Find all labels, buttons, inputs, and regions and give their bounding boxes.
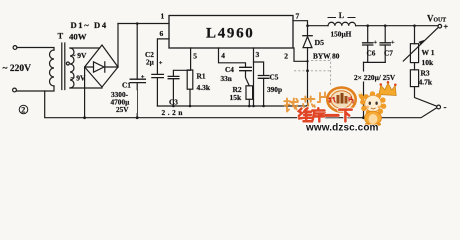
wire R2 bottom	[248, 99, 250, 106]
svg-text:4.7k: 4.7k	[419, 78, 433, 87]
capacitor C7	[380, 43, 390, 45]
wire C6 C7 join bar	[364, 61, 386, 63]
red brand text wei-ku-yi-xia drawn strokes	[299, 108, 352, 121]
junction pin2	[306, 60, 308, 62]
svg-text:4.3k: 4.3k	[197, 83, 211, 92]
svg-text:R1: R1	[197, 72, 206, 81]
svg-text:C5: C5	[270, 73, 279, 82]
svg-text:33n: 33n	[221, 74, 232, 83]
svg-text:2µ: 2µ	[146, 58, 155, 67]
diode D5	[303, 35, 312, 37]
AC source terminal top	[13, 46, 17, 50]
svg-text:10k: 10k	[422, 58, 435, 67]
svg-text:~ 9V: ~ 9V	[72, 51, 88, 60]
capacitor C4	[240, 67, 252, 70]
svg-text:R3: R3	[421, 69, 430, 78]
wire L to Vout	[356, 25, 438, 27]
wire W1 riser	[414, 26, 416, 44]
wire middle ground rail	[157, 105, 307, 107]
wire C2 to middle rail	[156, 78, 158, 106]
junction W1 tap	[413, 24, 416, 27]
bridge rectifier D1-D4	[85, 45, 118, 87]
svg-text:40W: 40W	[69, 32, 87, 42]
svg-text:~ 9V: ~ 9V	[71, 73, 87, 82]
svg-text:1: 1	[161, 12, 165, 21]
capacitor C3	[168, 76, 179, 78]
wire pin6 stub	[157, 39, 169, 74]
wire pin7 stub	[293, 21, 308, 26]
transformer T secondary winding	[70, 48, 74, 88]
svg-text:W 1: W 1	[422, 48, 435, 57]
svg-text:150µH: 150µH	[331, 30, 352, 39]
svg-text:2× 220µ/ 25V: 2× 220µ/ 25V	[354, 73, 396, 82]
watermark	[284, 81, 396, 133]
junction D5 output node	[306, 24, 309, 27]
wire C4 to R2	[246, 71, 250, 86]
wire R1 bottom	[189, 89, 191, 106]
junction bridge minus ground	[83, 116, 86, 119]
svg-text:D1~ D4: D1~ D4	[71, 20, 108, 30]
wire primary bottom	[16, 86, 54, 91]
svg-text:L: L	[339, 11, 344, 20]
svg-text:390p: 390p	[267, 85, 282, 94]
wire pin4	[219, 48, 246, 67]
potentiometer W1 wiper arrow	[403, 28, 438, 62]
junction D5 ground	[306, 116, 309, 119]
transformer T primary winding	[50, 50, 55, 86]
svg-text:~ 220V: ~ 220V	[3, 64, 32, 74]
node center tap terminal	[66, 62, 69, 65]
junction C7 tap	[384, 24, 387, 27]
svg-text:2: 2	[284, 52, 288, 61]
wire bridge plus riser	[117, 24, 119, 68]
inductor L	[328, 22, 356, 25]
svg-text:7: 7	[296, 12, 300, 21]
junction R2 rail	[248, 105, 251, 108]
junction C1 top	[136, 22, 139, 25]
svg-text:T: T	[58, 31, 64, 41]
capacitor C1	[130, 79, 145, 82]
IC U1 L4960 box	[169, 16, 293, 49]
svg-text:D5: D5	[315, 38, 325, 47]
svg-text:BYW 80: BYW 80	[313, 52, 340, 61]
wire pin5	[173, 48, 190, 76]
wire C5 tap	[254, 62, 264, 75]
wire C6 bottom	[367, 45, 369, 62]
seal	[327, 88, 355, 112]
svg-text:C6: C6	[367, 49, 376, 58]
wire bridge minus drop	[84, 68, 86, 118]
resistor R2	[246, 86, 253, 100]
label C6C7 value	[353, 72, 398, 83]
wire secondary top tap	[70, 47, 100, 49]
svg-text:C4: C4	[225, 65, 234, 74]
svg-text:6: 6	[160, 29, 164, 38]
resistor R3	[410, 70, 418, 87]
wire C3 bottom	[172, 79, 174, 106]
resistor R1	[187, 70, 193, 89]
wire C7 bottom	[384, 45, 386, 62]
wire secondary bottom tap	[70, 87, 102, 88]
svg-text:4: 4	[221, 51, 225, 60]
potentiometer W1	[410, 44, 418, 63]
svg-text:+: +	[391, 39, 395, 46]
wire C7 top	[384, 26, 386, 43]
svg-text:www.dzsc.com: www.dzsc.com	[305, 122, 379, 131]
AC source terminal bottom	[13, 88, 17, 92]
svg-text:+: +	[159, 60, 163, 67]
wire C6 top	[367, 26, 369, 43]
wire C1 to ground	[136, 83, 138, 118]
wire primary top	[17, 48, 54, 51]
junction R1 rail	[189, 105, 192, 108]
node Vout terminal	[438, 24, 442, 28]
dashed marks	[294, 58, 331, 88]
junction dashed cross	[306, 69, 309, 72]
svg-text:+: +	[373, 39, 377, 46]
junction C5 rail	[262, 105, 265, 108]
svg-text:C7: C7	[384, 49, 393, 58]
label circled 2	[19, 105, 28, 114]
wire pin3	[253, 48, 255, 106]
diode D5 wire top	[307, 26, 309, 36]
wire W1 to R3	[414, 63, 416, 70]
wire C5 bottom	[263, 78, 265, 106]
svg-text:15k: 15k	[230, 93, 243, 102]
junction C3 rail	[172, 105, 175, 108]
junction pin3 rail	[252, 105, 255, 108]
svg-text:2: 2	[21, 105, 25, 114]
junction C1 ground	[136, 116, 139, 119]
svg-text:L4960: L4960	[206, 26, 255, 42]
junction middle rail end	[306, 105, 309, 108]
wire pin2	[294, 48, 308, 61]
wire output node top	[308, 25, 329, 27]
svg-text:+: +	[444, 23, 449, 32]
svg-text:2.2n: 2.2n	[162, 108, 186, 117]
wire R3 to minus terminal	[415, 87, 437, 107]
junction C6 tap	[366, 24, 369, 27]
svg-text:C3: C3	[169, 98, 178, 107]
svg-text:25V: 25V	[116, 105, 129, 114]
orange chars zhao-xin-pian drawn strokes	[284, 93, 329, 112]
svg-text:-: -	[444, 102, 447, 112]
svg-text:3: 3	[256, 50, 260, 59]
svg-text:+: +	[141, 74, 145, 81]
wire C1 tap	[136, 24, 138, 80]
mascot	[357, 81, 396, 126]
capacitor C6	[363, 43, 373, 45]
wire C6C7 ground drop	[363, 62, 365, 117]
wire top rail to pin1	[118, 23, 169, 25]
capacitor C5	[258, 76, 269, 79]
capacitor C2	[152, 74, 164, 77]
svg-text:C1: C1	[122, 81, 131, 90]
wire main ground rail	[45, 91, 437, 118]
transformer core	[62, 43, 65, 90]
junction C6C7 ground	[362, 116, 365, 119]
svg-text:5: 5	[193, 52, 197, 61]
wire D5 to ground	[307, 48, 309, 118]
node minus terminal	[437, 105, 441, 109]
